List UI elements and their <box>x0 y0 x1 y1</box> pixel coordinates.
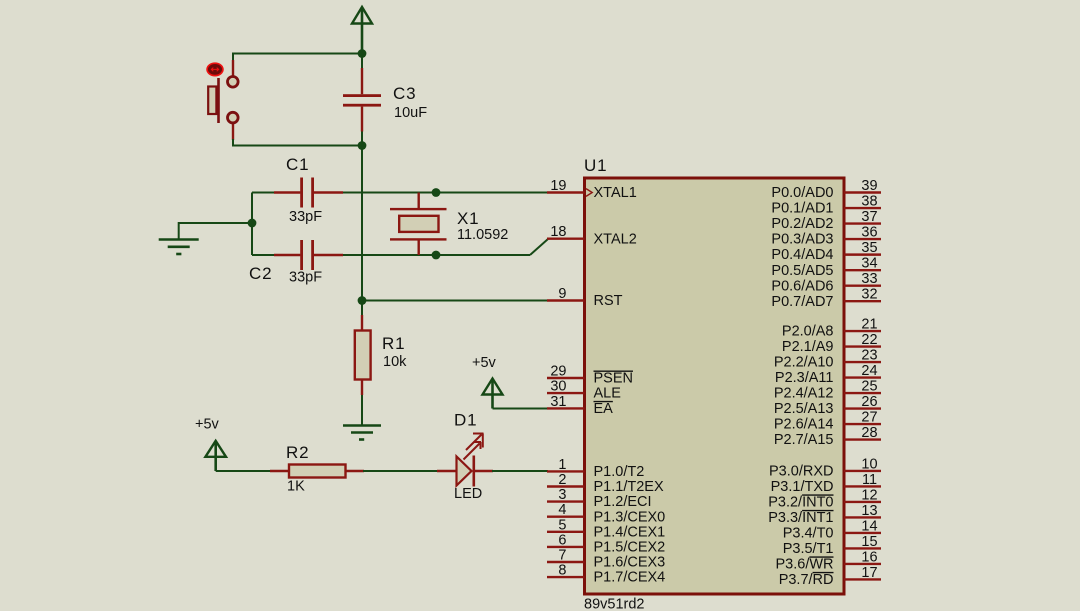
svg-text:EA: EA <box>594 401 614 417</box>
svg-text:26: 26 <box>861 394 877 410</box>
svg-text:D1: D1 <box>454 411 477 430</box>
svg-text:14: 14 <box>861 518 877 534</box>
svg-text:16: 16 <box>861 549 877 565</box>
resistor R2 1K <box>270 465 364 478</box>
power symbol +5v top rail <box>352 7 372 54</box>
svg-text:P2.0/A8: P2.0/A8 <box>782 324 834 340</box>
chip U1 89v51rd2 <box>585 178 845 594</box>
svg-text:29: 29 <box>550 364 566 380</box>
junction node XTAL1 <box>432 188 441 197</box>
junction node RST <box>358 296 367 305</box>
svg-text:25: 25 <box>861 379 877 395</box>
pin 31 EA (left) <box>547 394 613 417</box>
pin 2 P1.1/T2EX (left) <box>547 472 664 495</box>
wire top rail to button <box>233 54 362 63</box>
svg-text:P2.1/A9: P2.1/A9 <box>782 339 834 355</box>
wire main vertical rail <box>361 54 363 70</box>
svg-text:P0.3/AD3: P0.3/AD3 <box>771 232 833 248</box>
pin 19 XTAL1 (left) <box>547 178 637 201</box>
pin 30 ALE (left) <box>547 379 621 402</box>
svg-text:24: 24 <box>861 363 877 379</box>
svg-text:1K: 1K <box>287 479 305 495</box>
wire button to C3 bottom node <box>233 139 362 146</box>
svg-text:33pF: 33pF <box>289 270 322 286</box>
svg-text:R2: R2 <box>286 443 309 462</box>
svg-text:P0.5/AD5: P0.5/AD5 <box>771 263 833 279</box>
pin 15 P3.5/T1 (right) <box>783 534 881 557</box>
ground symbol left <box>159 240 199 255</box>
pin 5 P1.4/CEX1 (left) <box>547 517 665 540</box>
LED D1 <box>437 434 493 487</box>
wire R2 to LED <box>363 470 438 472</box>
svg-text:C2: C2 <box>249 264 272 283</box>
svg-text:XTAL2: XTAL2 <box>594 231 637 247</box>
pin 10 P3.0/RXD (right) <box>769 456 881 479</box>
pin 26 P2.5/A13 (right) <box>774 394 881 417</box>
wire diagonal to XTAL2 pin <box>530 239 548 255</box>
ground symbol under R1 <box>343 426 381 440</box>
pin 27 P2.6/A14 (right) <box>774 410 881 433</box>
svg-text:1: 1 <box>558 457 566 473</box>
svg-text:28: 28 <box>861 425 877 441</box>
pin 22 P2.1/A9 (right) <box>782 332 881 355</box>
pin 36 P0.3/AD3 (right) <box>771 225 881 248</box>
svg-text:11.0592: 11.0592 <box>457 227 508 243</box>
svg-text:P2.3/A11: P2.3/A11 <box>775 370 834 386</box>
pin 7 P1.6/CEX3 (left) <box>547 548 665 571</box>
svg-text:C3: C3 <box>393 84 416 103</box>
pin marker XTAL1 clock <box>586 189 592 197</box>
svg-text:23: 23 <box>861 348 877 364</box>
svg-text:7: 7 <box>558 548 566 564</box>
wire RST net <box>362 300 548 302</box>
power symbol +5v (EA) <box>483 379 503 409</box>
pin 18 XTAL2 (left) <box>547 224 637 247</box>
svg-text:PSEN: PSEN <box>594 371 634 387</box>
wire C1 row (XTAL1 net) <box>252 192 275 194</box>
svg-text:33: 33 <box>861 271 877 287</box>
svg-text:6: 6 <box>558 532 566 548</box>
svg-text:P3.5/T1: P3.5/T1 <box>783 541 834 557</box>
pin 33 P0.6/AD6 (right) <box>771 271 881 294</box>
svg-text:37: 37 <box>861 209 877 225</box>
wire C2 row (XTAL2 net) <box>252 254 275 256</box>
svg-text:P1.5/CEX2: P1.5/CEX2 <box>594 540 666 556</box>
capacitor C1 33pF <box>274 178 343 208</box>
svg-text:12: 12 <box>861 487 877 503</box>
svg-text:+5v: +5v <box>472 355 497 371</box>
svg-text:P1.3/CEX0: P1.3/CEX0 <box>594 509 666 525</box>
wire left capacitor rail <box>251 193 253 256</box>
pin 16 P3.6/WR (right) <box>775 549 881 572</box>
svg-text:22: 22 <box>861 332 877 348</box>
push button switch <box>207 60 238 140</box>
svg-text:X1: X1 <box>457 209 479 228</box>
svg-text:P2.7/A15: P2.7/A15 <box>774 432 834 448</box>
svg-text:5: 5 <box>558 517 566 533</box>
svg-text:10k: 10k <box>383 354 407 370</box>
svg-text:P1.0/T2: P1.0/T2 <box>594 464 645 480</box>
svg-text:P1.4/CEX1: P1.4/CEX1 <box>594 524 666 540</box>
svg-text:P2.4/A12: P2.4/A12 <box>774 386 834 402</box>
svg-text:P0.2/AD2: P0.2/AD2 <box>771 216 833 232</box>
pin 12 P3.2/INT0 (right) <box>768 487 881 510</box>
svg-text:9: 9 <box>558 286 566 302</box>
svg-text:P2.5/A13: P2.5/A13 <box>774 401 834 417</box>
pin 35 P0.4/AD4 (right) <box>771 240 881 263</box>
svg-text:P0.0/AD0: P0.0/AD0 <box>771 185 833 201</box>
svg-text:2: 2 <box>558 472 566 488</box>
svg-text:19: 19 <box>550 178 566 194</box>
svg-text:LED: LED <box>454 486 482 502</box>
svg-text:P3.6/WR: P3.6/WR <box>775 557 833 573</box>
svg-text:P3.1/TXD: P3.1/TXD <box>771 479 834 495</box>
svg-text:21: 21 <box>861 317 877 333</box>
svg-text:18: 18 <box>550 224 566 240</box>
pin 32 P0.7/AD7 (right) <box>771 287 881 310</box>
junction node top rail <box>358 49 367 58</box>
pin 6 P1.5/CEX2 (left) <box>547 532 665 555</box>
pin 25 P2.4/A12 (right) <box>774 379 881 402</box>
svg-text:R1: R1 <box>382 334 405 353</box>
svg-text:35: 35 <box>861 240 877 256</box>
wire LED to P1.0 <box>492 470 548 472</box>
wire to ground <box>179 223 252 239</box>
pin 24 P2.3/A11 (right) <box>775 363 881 386</box>
svg-text:39: 39 <box>861 178 877 194</box>
svg-text:4: 4 <box>558 502 566 518</box>
pin 34 P0.5/AD5 (right) <box>771 256 881 279</box>
svg-text:17: 17 <box>861 565 877 581</box>
svg-text:10: 10 <box>861 456 877 472</box>
pin 28 P2.7/A15 (right) <box>774 425 881 448</box>
pin 39 P0.0/AD0 (right) <box>771 178 881 201</box>
svg-text:36: 36 <box>861 225 877 241</box>
pin 13 P3.3/INT1 (right) <box>768 503 881 526</box>
pin 9 RST (left) <box>547 286 623 309</box>
svg-text:+5v: +5v <box>195 417 220 433</box>
svg-text:27: 27 <box>861 410 877 426</box>
svg-text:32: 32 <box>861 287 877 303</box>
wire +5v to R2 <box>216 470 275 472</box>
power symbol +5v (R2) <box>205 441 226 471</box>
svg-text:10uF: 10uF <box>394 105 427 121</box>
svg-text:P3.7/RD: P3.7/RD <box>779 572 834 588</box>
svg-text:P0.4/AD4: P0.4/AD4 <box>771 247 833 263</box>
svg-text:13: 13 <box>861 503 877 519</box>
svg-text:U1: U1 <box>584 156 607 175</box>
svg-text:P2.6/A14: P2.6/A14 <box>774 417 834 433</box>
svg-text:P3.4/T0: P3.4/T0 <box>783 526 834 542</box>
pin 8 P1.7/CEX4 (left) <box>547 563 665 586</box>
svg-text:P1.1/T2EX: P1.1/T2EX <box>594 479 664 495</box>
svg-text:XTAL1: XTAL1 <box>594 185 637 201</box>
capacitor C2 33pF <box>274 240 343 270</box>
svg-text:P3.2/INT0: P3.2/INT0 <box>768 495 833 511</box>
svg-text:34: 34 <box>861 256 877 272</box>
svg-text:P3.0/RXD: P3.0/RXD <box>769 464 833 480</box>
svg-text:30: 30 <box>550 379 566 395</box>
pin 38 P0.1/AD1 (right) <box>771 194 881 217</box>
svg-text:89v51rd2: 89v51rd2 <box>584 597 644 611</box>
svg-text:38: 38 <box>861 194 877 210</box>
pin 23 P2.2/A10 (right) <box>774 348 881 371</box>
pin 11 P3.1/TXD (right) <box>771 472 881 495</box>
pin 29 PSEN (left) <box>547 364 633 387</box>
pin 3 P1.2/ECI (left) <box>547 487 652 510</box>
svg-text:P2.2/A10: P2.2/A10 <box>774 355 834 371</box>
svg-text:ALE: ALE <box>594 386 622 402</box>
junction node XTAL2 <box>432 251 441 260</box>
svg-text:3: 3 <box>558 487 566 503</box>
svg-text:P1.7/CEX4: P1.7/CEX4 <box>594 570 666 586</box>
pin 4 P1.3/CEX0 (left) <box>547 502 665 525</box>
svg-text:C1: C1 <box>286 155 309 174</box>
svg-text:33pF: 33pF <box>289 209 322 225</box>
svg-text:P0.1/AD1: P0.1/AD1 <box>771 201 833 217</box>
svg-text:P1.6/CEX3: P1.6/CEX3 <box>594 555 666 571</box>
pin 1 P1.0/T2 (left) <box>547 457 644 480</box>
pin 21 P2.0/A8 (right) <box>782 317 881 340</box>
crystal X1 11.0592 <box>390 193 447 256</box>
pin 37 P0.2/AD2 (right) <box>771 209 881 232</box>
svg-text:RST: RST <box>594 293 623 309</box>
svg-text:15: 15 <box>861 534 877 550</box>
resistor R1 10k <box>355 315 371 395</box>
svg-text:P3.3/INT1: P3.3/INT1 <box>768 510 833 526</box>
svg-text:8: 8 <box>558 563 566 579</box>
junction node C3 bottom <box>358 141 367 150</box>
svg-text:P0.6/AD6: P0.6/AD6 <box>771 278 833 294</box>
junction node ground tap <box>248 219 257 228</box>
svg-text:31: 31 <box>550 394 566 410</box>
svg-text:11: 11 <box>862 472 877 488</box>
pin 14 P3.4/T0 (right) <box>783 518 881 541</box>
wire +5v to EA pin <box>493 408 549 410</box>
svg-text:P0.7/AD7: P0.7/AD7 <box>771 294 833 310</box>
svg-text:P1.2/ECI: P1.2/ECI <box>594 494 652 510</box>
pin 17 P3.7/RD (right) <box>779 565 881 588</box>
capacitor C3 10uF <box>343 68 381 132</box>
